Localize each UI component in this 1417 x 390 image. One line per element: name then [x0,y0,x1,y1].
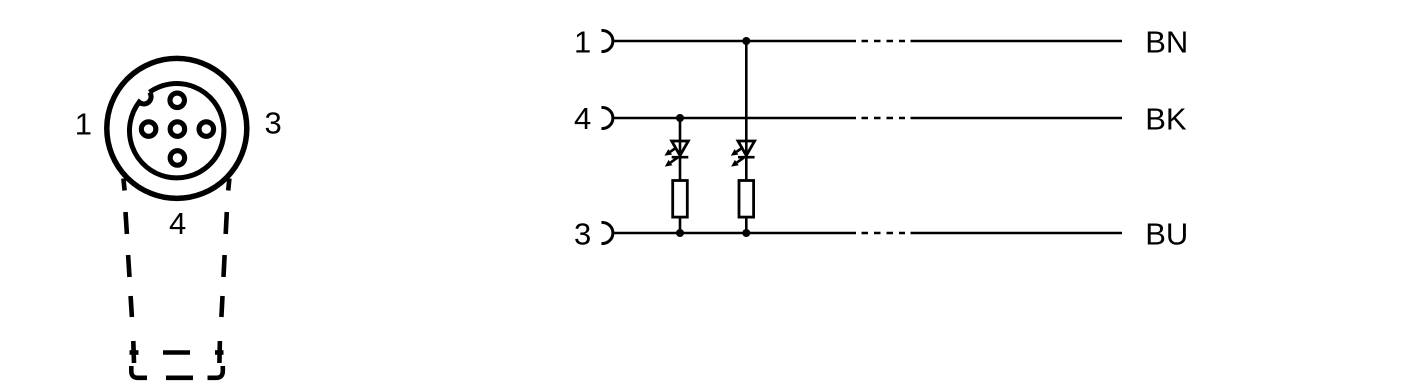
svg-text:1: 1 [574,24,591,59]
wire BK dashed middle [862,117,906,120]
resistor R1 [673,181,688,218]
wire BU solid left [613,232,856,235]
svg-text:BN: BN [1145,24,1188,59]
wire BU dashed middle [862,232,906,235]
wire BN solid left [613,40,856,43]
cable housing dashed left side [126,212,135,363]
junction dot BN/branch2 [742,37,750,45]
cable housing dashed rectangle [130,353,224,378]
pin left [141,122,156,137]
pin centre [170,122,185,137]
branch 2 wire resistor to BU [745,217,748,233]
pin 3 contact arc [601,223,612,244]
connector left leg [123,179,124,191]
wire BU solid right [911,232,1123,235]
svg-text:4: 4 [574,101,591,136]
branch 2 vertical wire (BN down through BK to LED) [745,41,748,181]
wire BN solid right [911,40,1123,43]
svg-text:3: 3 [265,106,282,141]
wire BK solid right [911,117,1123,120]
connector M12 face: outer circle [107,58,247,198]
branch 1 vertical wire (pin4 to LED) [679,118,682,181]
svg-text:BU: BU [1145,216,1188,251]
svg-text:BK: BK [1145,102,1187,137]
LED D2 [731,141,755,167]
branch 1 wire resistor to BU [679,217,682,233]
wire BK solid left [613,117,856,120]
svg-text:3: 3 [574,217,591,252]
junction dot BU/branch1 [676,229,684,237]
junction dot BK/branch1 [676,114,684,122]
junction dot BU/branch2 [742,229,750,237]
resistor R2 [739,181,754,218]
cable housing dashed right side [219,212,226,363]
pin top [170,93,185,108]
pin right [199,122,214,137]
pin bottom [170,151,185,166]
connector inner circle with keyway notch [129,84,223,178]
wire BN dashed middle [862,40,906,43]
LED D1 [665,141,689,167]
pin 1 contact arc [601,31,612,52]
pin 4 contact arc [601,108,612,129]
svg-text:4: 4 [169,206,186,241]
svg-text:1: 1 [75,107,92,142]
connector right leg [228,179,229,191]
